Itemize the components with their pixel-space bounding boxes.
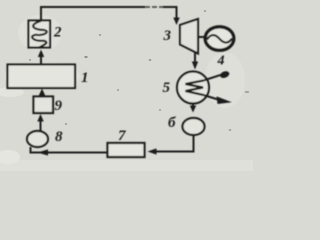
- wire turbine 3 exhaust to condenser 5: [194, 53, 196, 63]
- coil of superheater 2: [32, 21, 47, 47]
- svg-text:2: 2: [53, 25, 62, 41]
- cooling water outlet blob: [219, 70, 230, 79]
- condenser 5: [177, 72, 209, 104]
- svg-text:7: 7: [118, 128, 126, 144]
- cooling water inlet line of condenser 5: [204, 95, 219, 100]
- pump 8: [27, 131, 48, 147]
- svg-text:б: б: [168, 115, 176, 131]
- economizer 9: [34, 97, 54, 114]
- arrow into economizer 9: [37, 114, 43, 122]
- wire steam main: superheater 2 to turbine 3: [41, 7, 145, 21]
- wire heater 7 to pump 8: [31, 147, 108, 153]
- scan noise specks: [29, 10, 249, 131]
- arrow toward pump 8: [38, 149, 49, 155]
- arrow into heater 7: [148, 148, 157, 154]
- shaft wire turbine 3 to generator 4: [198, 36, 206, 38]
- wire condenser 5 to pump 6: [192, 104, 194, 107]
- svg-text:9: 9: [55, 98, 63, 114]
- arrow into boiler 1: [39, 89, 45, 96]
- arrow into condenser 5: [192, 62, 198, 70]
- boiler 1: [8, 65, 76, 89]
- svg-text:1: 1: [81, 70, 89, 86]
- wire pump 8 to economizer 9: [40, 122, 42, 132]
- wire economizer 9 to boiler 1: [41, 95, 43, 97]
- wire boiler 1 to superheater 2: [40, 57, 42, 65]
- coil of condenser 5: [186, 81, 204, 96]
- svg-text:5: 5: [163, 80, 171, 96]
- turbine 3: [180, 19, 198, 54]
- cooling water inlet arrowhead: [217, 96, 232, 104]
- superheater 2: [29, 21, 51, 48]
- sine mark in generator 4: [207, 35, 232, 43]
- arrow into superheater 2: [38, 50, 44, 58]
- wire pump 6 to heater 7: [156, 135, 194, 152]
- light paper patches: [0, 160, 253, 171]
- arrow into pump 6: [190, 106, 196, 113]
- cooling water outlet line of condenser 5: [204, 75, 222, 81]
- heater 7: [108, 143, 145, 157]
- faded wire segment: [145, 6, 163, 8]
- svg-text:4: 4: [217, 54, 225, 69]
- pump 6: [183, 118, 205, 135]
- generator 4: [205, 27, 234, 50]
- svg-text:3: 3: [163, 28, 172, 44]
- arrow into turbine 3: [173, 18, 179, 26]
- paper background: [0, 0, 253, 171]
- svg-text:8: 8: [55, 129, 63, 145]
- wire into turbine corner: [163, 7, 177, 19]
